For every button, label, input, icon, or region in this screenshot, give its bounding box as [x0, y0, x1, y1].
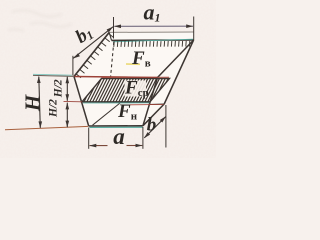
hidden back-left slope edge (dashed): [111, 42, 114, 78]
bottom face left edge (thin): [93, 103, 121, 126]
dim a1: extension lines: [113, 17, 115, 39]
bottom face right edge: [143, 104, 164, 126]
front-left slope edge: [74, 77, 89, 127]
ground back edge (outer, light): [109, 31, 194, 33]
dim a: dimension line: [90, 145, 108, 147]
opening back edge: [112, 39, 194, 41]
pit silhouette (lighter paper inside figure): [74, 32, 194, 126]
svg-text:H: H: [20, 94, 44, 112]
dim b: extension line: [165, 105, 167, 148]
middle section back edge red fringe: [102, 76, 169, 78]
back-right slope edge: [164, 40, 193, 104]
slope hatch ticks along opening back edge: [114, 41, 190, 47]
svg-text:a: a: [113, 124, 125, 149]
top face band behind opening: [110, 33, 194, 39]
dim H: top extension line: [33, 75, 74, 76]
slope hatch ticks along left edge: [76, 33, 113, 77]
dim H/2 lower: dimension line: [66, 103, 68, 128]
yellow pencil smudge under F_v: [126, 63, 140, 65]
dim a1: dimension line: [114, 25, 193, 27]
dim b1: dimension line: [73, 27, 113, 59]
svg-text:H/2: H/2: [48, 99, 60, 118]
top face right edge: [158, 40, 194, 78]
dim H: bottom extension line (orange): [5, 126, 88, 129]
middle section front edge teal fringe: [83, 102, 150, 104]
dim b1: extension line: [72, 56, 74, 76]
top face left edge: [74, 32, 109, 76]
svg-text:H/2: H/2: [53, 79, 65, 98]
dim b: dimension line: [144, 117, 165, 138]
faint page bleed-through ghosts: [8, 10, 164, 71]
bottom face front edge: [89, 125, 143, 127]
top face front edge (red-brown): [74, 77, 158, 78]
dim H/2: middle extension line (red): [64, 100, 83, 102]
dim H: dimension line: [39, 77, 41, 128]
dim a: extension lines: [88, 128, 90, 149]
bottom face back edge: [149, 103, 165, 106]
front-right slope edge: [143, 78, 158, 126]
svg-text:b: b: [147, 115, 157, 136]
dim H/2 upper: dimension line: [66, 77, 68, 101]
